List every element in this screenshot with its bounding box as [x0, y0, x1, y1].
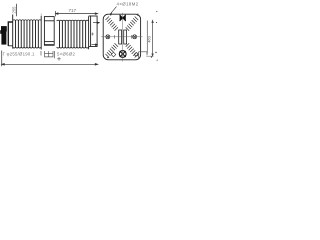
bottom dimension line: [2, 64, 98, 66]
leader arrow lower on flange: [92, 44, 98, 46]
svg-text:5×Ø6Ø2: 5×Ø6Ø2: [57, 52, 75, 57]
bottom dimension extension line left: [1, 51, 3, 67]
bottom-right bracket callout: [139, 52, 147, 58]
central slot rectangles: [119, 30, 127, 44]
middle fitting box: [44, 17, 54, 46]
right side hole: [133, 35, 137, 39]
terminal lug (black): [0, 26, 7, 44]
shed section 1 scalloped bottom edge: [13, 46, 42, 49]
right dim bottom tick: [146, 55, 153, 57]
datum frame under middle fitting: [41, 51, 55, 58]
corner hatch band bottom-right: [126, 43, 139, 57]
plate horizontal centerline: [101, 36, 142, 38]
section 1 end plate: [40, 16, 42, 50]
small dots bottom right: [151, 56, 152, 57]
svg-text:2: 2: [137, 13, 139, 17]
shed section 2 scalloped top edge: [57, 19, 89, 22]
right vertical dimension line with arrow: [152, 21, 153, 57]
tick above section1 end: [40, 13, 42, 15]
top-right leader line: [110, 7, 117, 16]
flange side view: [89, 16, 98, 47]
top-center hole with cross: [120, 15, 126, 21]
background: [0, 0, 159, 68]
svg-text:460: 460: [146, 35, 151, 42]
top-left vertical dimension line: [16, 4, 18, 16]
body root tube: [8, 22, 12, 46]
shed section 2 verticals: [60, 20, 86, 47]
shed section 2 scalloped bottom edge: [57, 46, 89, 49]
dot far bottom right: [157, 60, 158, 61]
flange plate end view outline: [103, 14, 140, 60]
leader arrow upper on flange: [93, 22, 99, 24]
small dot bottom left of plate: [107, 57, 108, 58]
top dimension line: [56, 11, 98, 16]
corner hatch band bottom-left: [106, 43, 119, 57]
svg-text:Γ φ255/Ø190.1: Γ φ255/Ø190.1: [3, 52, 35, 57]
left side hole: [106, 35, 110, 39]
svg-text:717: 717: [69, 8, 77, 13]
middle fitting bottom thick line: [44, 44, 54, 46]
bottom-center hole with cross: [119, 51, 126, 58]
svg-text:4×Ø18M2: 4×Ø18M2: [117, 2, 139, 7]
shed section 1 scalloped top edge: [13, 19, 42, 22]
bottom-left corner small hole: [111, 52, 116, 57]
plate vertical centerline: [122, 13, 124, 62]
svg-text:255: 255: [12, 6, 17, 14]
bottom-right corner small hole: [135, 53, 138, 56]
right vertical dimension extension line: [146, 21, 148, 54]
corner hatch band top-right: [126, 17, 139, 31]
section 2 end plate: [88, 16, 90, 49]
tiny apostrophe top far right: [156, 11, 157, 12]
centerline ticks: [113, 35, 115, 39]
small plus mark under text: [57, 57, 61, 61]
flange center mark: [91, 33, 94, 36]
shed section 1 verticals: [13, 15, 39, 49]
corner hatch band top-left: [106, 17, 119, 31]
right small dot: [156, 22, 157, 23]
